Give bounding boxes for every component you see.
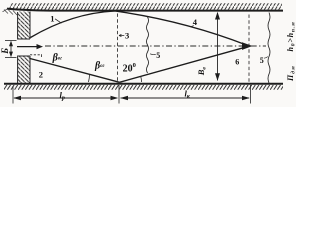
svg-text:5: 5	[260, 56, 264, 65]
line 6 (lower boundary rising to vertex)	[120, 47, 246, 82]
left wall lower hatch	[18, 56, 30, 84]
slot dimension arrow	[10, 42, 12, 56]
angle arc beta og	[89, 74, 90, 82]
floor line	[4, 83, 283, 85]
corner strokes top-left	[3, 9, 18, 15]
svg-text:1: 1	[50, 13, 54, 23]
wavy section line 5b	[268, 13, 270, 83]
centerline (dash-dot axis)	[45, 45, 266, 47]
extension line right	[250, 85, 252, 104]
svg-text:Б: Б	[0, 48, 10, 55]
extension line at vertex	[118, 85, 120, 104]
angle arc 20deg	[140, 76, 143, 82]
left wall upper hatch	[18, 12, 30, 40]
left wall upper edges	[18, 12, 30, 40]
line 1 (upper jet boundary, curved)	[31, 11, 116, 38]
bottom dimension lk	[121, 97, 250, 99]
svg-text:2: 2	[39, 70, 43, 80]
section dashed line right	[248, 15, 250, 84]
ceiling line	[7, 9, 283, 11]
left wall lower edges	[18, 56, 30, 84]
section dashed line 3	[117, 14, 119, 83]
wavy section line 5a	[147, 17, 149, 73]
dashed horizontal reference at wall corner	[30, 54, 42, 56]
svg-text:3: 3	[125, 31, 129, 41]
line 2 (lower jet boundary)	[30, 59, 120, 83]
svg-text:5: 5	[156, 51, 160, 60]
bottom dimension lp	[12, 86, 14, 104]
line 4 (upper boundary to vertex)	[115, 11, 247, 45]
slot dimension tick bottom	[5, 56, 17, 58]
floor hatch band	[4, 85, 283, 90]
svg-text:6: 6	[235, 58, 239, 67]
slot dimension tick top	[5, 39, 17, 41]
tick at end of reference	[41, 54, 43, 57]
tip arrow at convergence	[242, 42, 253, 50]
vertical dimension Bv	[217, 13, 219, 81]
ceiling hatch band	[8, 3, 282, 10]
flow arrow	[17, 46, 38, 48]
